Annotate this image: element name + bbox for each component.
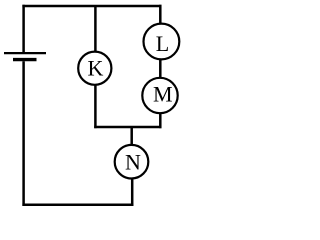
wire N branch top: [130, 127, 133, 146]
wire L to M: [159, 59, 162, 79]
wire middle junction horizontal: [94, 126, 161, 129]
wire left vertical upper (battery + to top wire): [22, 5, 25, 52]
lamp N: [115, 145, 149, 179]
svg-text:N: N: [125, 149, 141, 174]
wire M to junction: [159, 113, 162, 129]
lamp M: [142, 78, 177, 113]
lamp L: [144, 24, 180, 60]
svg-text:L: L: [156, 31, 169, 56]
wire top horizontal: [22, 5, 161, 8]
wire N branch bottom: [131, 178, 134, 206]
lamp K: [78, 52, 111, 85]
battery long plate: [4, 52, 46, 54]
wire left vertical lower (battery - to bottom wire): [22, 61, 25, 206]
battery short plate: [13, 58, 37, 61]
svg-text:K: K: [88, 56, 104, 81]
wire L branch top: [159, 5, 162, 25]
wire K branch top: [94, 6, 97, 52]
wire bottom horizontal: [22, 203, 133, 206]
wire K branch bottom: [94, 85, 97, 128]
svg-text:M: M: [153, 82, 173, 107]
